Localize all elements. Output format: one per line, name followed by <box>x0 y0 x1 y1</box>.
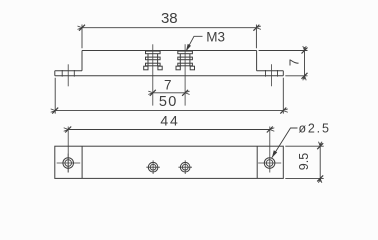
svg-text:M3: M3 <box>206 30 225 45</box>
side view left hole centerline <box>67 64 69 86</box>
screw stud right (M3) <box>176 44 195 105</box>
svg-text:50: 50 <box>159 94 178 110</box>
dim 9.5 vertical right <box>285 142 323 183</box>
plan stud left <box>146 160 160 174</box>
plan separators <box>82 146 257 178</box>
svg-text:38: 38 <box>161 10 178 27</box>
side view right hole edge ticks <box>266 70 278 77</box>
svg-text:7: 7 <box>164 77 172 92</box>
svg-text:7: 7 <box>287 59 302 66</box>
leader M3 <box>186 36 202 51</box>
svg-text:9.5: 9.5 <box>297 153 311 170</box>
plan right hole <box>258 158 281 169</box>
dim 38 <box>78 25 261 49</box>
dim 7 vertical right <box>259 46 308 80</box>
side view left hole edge ticks <box>62 70 74 77</box>
dim 44 <box>64 127 275 173</box>
dim 50 <box>51 78 288 114</box>
svg-text:ø2.5: ø2.5 <box>299 121 331 135</box>
plan view outline <box>55 146 283 178</box>
dim 7 (stud spacing) <box>148 90 189 96</box>
side view body outline <box>55 51 283 76</box>
svg-text:44: 44 <box>160 113 179 129</box>
leader dia 2.5 <box>272 128 298 158</box>
screw stud left (M3) <box>144 44 163 105</box>
side view right hole centerline <box>271 64 273 86</box>
plan left hole <box>57 154 80 173</box>
plan stud right <box>178 160 192 174</box>
